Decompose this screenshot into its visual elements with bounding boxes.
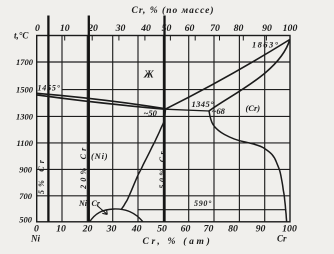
y gridline 1300 xyxy=(37,115,290,117)
svg-text:2: 2 xyxy=(86,204,90,210)
x gridline 40at xyxy=(137,36,139,222)
x gridline 80at xyxy=(238,36,240,222)
svg-text:1455°: 1455° xyxy=(38,84,61,93)
svg-text:70: 70 xyxy=(204,224,214,235)
y gridline 1500 (starts after 1455 label) xyxy=(62,89,290,91)
thick composition line 50% Cr xyxy=(163,16,165,222)
eutectic line 1345 xyxy=(165,109,209,111)
solidus left branch (Ni) xyxy=(37,95,166,109)
svg-text:20: 20 xyxy=(82,224,93,235)
svg-text:1100: 1100 xyxy=(16,138,33,148)
top tick mass 80% xyxy=(242,36,244,41)
svg-text:5% Cr: 5% Cr xyxy=(37,157,46,194)
x gridline 50at xyxy=(162,36,164,222)
svg-text:(Ni): (Ni) xyxy=(91,151,108,161)
x gridline 90at xyxy=(264,36,266,222)
thick composition line 20% Cr xyxy=(88,16,90,222)
eutectoid line 590 xyxy=(138,209,287,211)
y gridline 700 xyxy=(37,195,290,197)
y gridline 1100 xyxy=(37,142,290,144)
liquidus left branch (1455 to eutectic) xyxy=(37,93,166,109)
svg-text:1863°: 1863° xyxy=(252,40,279,50)
liquidus right branch (eutectic to 1863) xyxy=(166,40,290,109)
svg-text:50: 50 xyxy=(162,23,172,34)
svg-text:0: 0 xyxy=(35,23,40,34)
y gridline 1700 xyxy=(37,61,290,63)
axis frame xyxy=(37,36,290,222)
top tick mass 10% xyxy=(64,36,66,41)
svg-text:Cr, % (по массе): Cr, % (по массе) xyxy=(132,5,215,16)
svg-text:10: 10 xyxy=(60,23,70,34)
svg-text:1700: 1700 xyxy=(16,57,34,67)
y gridline 900 xyxy=(37,168,290,170)
top tick mass 90% xyxy=(265,36,267,41)
x gridline 10at xyxy=(61,36,63,222)
svg-text:Cr, % (ат): Cr, % (ат) xyxy=(143,236,213,247)
svg-text:Ni: Ni xyxy=(30,234,40,244)
svg-text:(Cr): (Cr) xyxy=(246,103,261,113)
svg-text:90: 90 xyxy=(262,23,272,34)
svg-text:20% Cr: 20% Cr xyxy=(79,145,88,190)
top tick mass 40% xyxy=(144,36,146,41)
svg-text:30: 30 xyxy=(115,23,126,34)
svg-text:100: 100 xyxy=(283,23,298,34)
solidus right branch (Cr) xyxy=(209,40,290,112)
x gridline 70at xyxy=(213,36,215,222)
top tick mass 50% xyxy=(169,36,171,41)
top tick mass 30% xyxy=(118,36,120,41)
svg-text:900: 900 xyxy=(19,164,33,174)
top tick mass 70% xyxy=(219,36,221,41)
thick composition line 5% Cr xyxy=(47,16,49,222)
svg-text:1300: 1300 xyxy=(16,111,34,121)
(Cr) solvus xyxy=(209,111,287,222)
svg-text:Cr: Cr xyxy=(277,234,287,244)
Ni2Cr dome xyxy=(90,209,144,222)
svg-text:70: 70 xyxy=(210,23,220,34)
svg-text:60: 60 xyxy=(185,23,195,34)
svg-text:40: 40 xyxy=(131,224,142,235)
svg-text:30: 30 xyxy=(106,224,117,235)
top tick mass 20% xyxy=(91,36,93,41)
svg-text:~68: ~68 xyxy=(212,106,226,116)
x gridline 30at xyxy=(112,36,114,222)
svg-text:t,°C: t,°C xyxy=(14,31,29,41)
svg-text:50: 50 xyxy=(157,224,167,235)
svg-text:1500: 1500 xyxy=(16,85,34,95)
svg-text:90: 90 xyxy=(256,224,266,235)
Ni2Cr label arrow xyxy=(97,206,107,215)
svg-text:20: 20 xyxy=(87,23,98,34)
svg-text:100: 100 xyxy=(282,224,297,235)
svg-text:700: 700 xyxy=(19,191,33,201)
svg-text:~50: ~50 xyxy=(144,108,158,118)
svg-text:Cr: Cr xyxy=(92,199,101,208)
svg-text:500: 500 xyxy=(19,215,33,225)
svg-text:80: 80 xyxy=(234,23,244,34)
svg-text:80: 80 xyxy=(228,224,238,235)
svg-text:0: 0 xyxy=(34,224,39,235)
x gridline 20at xyxy=(86,36,88,222)
svg-text:10: 10 xyxy=(56,224,66,235)
(Ni) solvus xyxy=(121,110,166,210)
x gridline 60at xyxy=(188,36,190,222)
top tick mass 60% xyxy=(194,36,196,41)
svg-text:40: 40 xyxy=(140,23,151,34)
svg-text:50% Cr: 50% Cr xyxy=(158,149,167,189)
svg-text:60: 60 xyxy=(181,224,191,235)
svg-text:590°: 590° xyxy=(194,199,212,208)
svg-text:Ж: Ж xyxy=(143,70,154,81)
